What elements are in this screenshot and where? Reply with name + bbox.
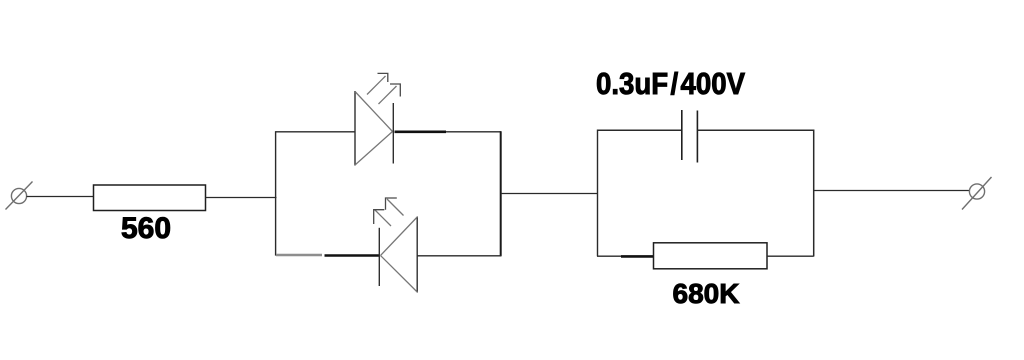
wire bottom of RC loop thick segment: [621, 255, 654, 258]
terminal J1 (left input terminal): [6, 182, 33, 210]
cathode bar of D2: [378, 228, 380, 286]
svg-text:0.3uF / 400V: 0.3uF / 400V: [596, 66, 745, 101]
wire top of LED loop (left part): [276, 131, 356, 133]
LED D1 (top branch, anode left): [355, 91, 393, 166]
wire top of RC loop (left part): [597, 129, 682, 131]
wire top of LED loop thick segment after D1 cathode: [395, 131, 447, 134]
wire R1 to LED group node: [206, 197, 277, 199]
wire top of LED loop (right part): [446, 131, 501, 133]
light arrow 1 of D1: [367, 73, 388, 94]
light arrow 2 of D1: [379, 84, 401, 104]
wire left vertical of LED loop: [275, 131, 277, 255]
wire LED loop to RC loop: [501, 193, 598, 195]
LED D2 (bottom branch, anode right): [381, 217, 418, 293]
wire J1 to R1: [27, 196, 94, 198]
wire bottom of RC loop (right part): [767, 255, 814, 257]
wire right vertical of RC loop: [813, 130, 815, 257]
wire bottom of LED loop thick black segment: [325, 254, 381, 257]
wire bottom of LED loop grey segment: [276, 254, 322, 256]
capacitor C1 plates: [682, 110, 698, 163]
svg-text:680K: 680K: [673, 278, 740, 309]
wire top of RC loop (right part): [697, 129, 813, 131]
cathode bar of D1: [392, 103, 394, 164]
wire bottom of RC loop (left part): [597, 255, 621, 257]
wire RC loop to terminal J2: [814, 190, 970, 192]
svg-text:560: 560: [121, 212, 171, 245]
wire right vertical of LED loop: [500, 131, 502, 256]
terminal J2 (right output terminal): [962, 177, 992, 210]
wire left vertical of RC loop: [597, 130, 599, 257]
light arrow 1 of D2: [374, 210, 391, 226]
resistor R1 body: [94, 185, 206, 211]
resistor R2 body: [654, 243, 768, 269]
light arrow 2 of D2: [386, 198, 404, 216]
wire bottom of LED loop (right part): [417, 255, 501, 257]
